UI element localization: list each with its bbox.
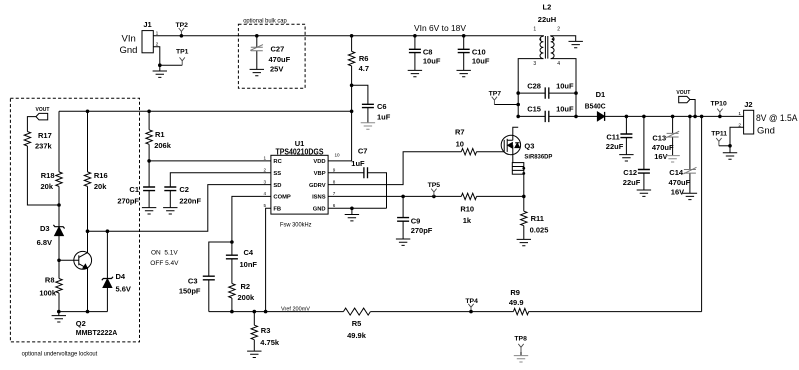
- capacitor C4: [226, 242, 258, 284]
- svg-text:49.9k: 49.9k: [347, 331, 367, 340]
- svg-text:Gnd: Gnd: [757, 125, 775, 136]
- svg-text:C10: C10: [472, 48, 486, 57]
- wire uvlo bottom: [57, 310, 107, 314]
- svg-text:16V: 16V: [654, 152, 667, 161]
- svg-text:VBP: VBP: [314, 171, 326, 177]
- svg-text:C1: C1: [129, 185, 139, 194]
- inductor L2: [533, 3, 560, 67]
- zener D4: [102, 229, 131, 311]
- svg-text:1uF: 1uF: [377, 112, 391, 121]
- svg-text:R17: R17: [38, 131, 52, 140]
- svg-text:1k: 1k: [463, 216, 472, 225]
- svg-text:C4: C4: [244, 248, 254, 257]
- label ON OFF thresholds: [150, 250, 179, 268]
- test point TP8: [514, 335, 527, 355]
- svg-text:C14: C14: [669, 168, 684, 177]
- node output feedback: [700, 115, 704, 119]
- ground (C2): [163, 208, 177, 214]
- svg-text:8: 8: [333, 179, 336, 184]
- svg-text:150pF: 150pF: [179, 287, 201, 296]
- svg-text:B540C: B540C: [585, 101, 606, 110]
- svg-text:1: 1: [263, 156, 266, 161]
- wire base: [59, 259, 79, 261]
- svg-text:C2: C2: [179, 185, 189, 194]
- ground (C12): [637, 190, 651, 196]
- svg-text:3: 3: [533, 61, 536, 67]
- wire GDRV pin8: [328, 152, 461, 185]
- svg-text:470uF: 470uF: [269, 55, 291, 64]
- svg-text:10: 10: [335, 153, 341, 158]
- capacitor C3 branch: [179, 242, 232, 312]
- wire SD pin3: [88, 185, 271, 232]
- svg-text:5.6V: 5.6V: [116, 284, 131, 293]
- ground (J2): [723, 153, 737, 159]
- resistor R10: [460, 193, 476, 225]
- resistor R2: [229, 282, 255, 313]
- ground (C11): [619, 155, 633, 161]
- wire J1 pin2 to ground: [153, 47, 182, 67]
- svg-text:ON 5.1V: ON 5.1V: [151, 250, 178, 257]
- svg-text:R7: R7: [455, 128, 465, 137]
- resistor R16: [84, 110, 107, 232]
- wire SS pin2 / capacitor C2: [164, 173, 271, 208]
- svg-text:49.9: 49.9: [509, 298, 524, 307]
- test point TP4: [465, 298, 478, 314]
- svg-text:VOUT: VOUT: [36, 107, 50, 113]
- ground (C8): [408, 70, 422, 76]
- ground (C13): [665, 156, 679, 162]
- svg-text:Gnd: Gnd: [120, 45, 138, 56]
- svg-text:3: 3: [263, 179, 266, 184]
- capacitor C15: [518, 104, 576, 122]
- svg-text:10uF: 10uF: [472, 57, 490, 66]
- ground (R3): [247, 351, 261, 357]
- svg-text:270pF: 270pF: [411, 226, 433, 235]
- svg-text:GDRV: GDRV: [309, 183, 326, 189]
- svg-text:20k: 20k: [40, 182, 53, 191]
- svg-text:VIn 6V to 18V: VIn 6V to 18V: [414, 24, 467, 33]
- capacitor C1: [117, 161, 155, 208]
- capacitor C7: [328, 146, 386, 208]
- svg-text:4: 4: [557, 61, 560, 67]
- optional undervoltage lockout box: [10, 98, 139, 357]
- svg-text:TP10: TP10: [711, 100, 727, 107]
- svg-text:TPS40210DGS: TPS40210DGS: [276, 148, 324, 157]
- ground (uvlo): [52, 312, 66, 322]
- svg-text:Q3: Q3: [524, 142, 534, 151]
- wire FB pin5: [264, 208, 271, 313]
- resistor R9: [509, 288, 529, 315]
- net tag VOUT (output): [676, 90, 696, 118]
- net tag VOUT (uvlo): [27, 107, 49, 132]
- svg-text:6.8V: 6.8V: [37, 238, 52, 247]
- svg-text:220nF: 220nF: [179, 196, 201, 205]
- svg-text:TP7: TP7: [489, 90, 502, 97]
- wire top rail Vin: [153, 35, 541, 37]
- svg-text:J2: J2: [744, 100, 752, 109]
- svg-text:22uF: 22uF: [623, 178, 641, 187]
- capacitor C14: [669, 115, 697, 197]
- svg-text:R6: R6: [359, 54, 369, 63]
- svg-text:R11: R11: [531, 214, 544, 223]
- svg-text:COMP: COMP: [273, 195, 291, 201]
- test point TP11: [711, 130, 730, 145]
- svg-text:C15: C15: [527, 104, 541, 113]
- svg-text:1: 1: [533, 26, 536, 32]
- svg-text:TP5: TP5: [428, 182, 441, 189]
- svg-text:2: 2: [263, 167, 266, 172]
- svg-text:10uF: 10uF: [556, 81, 574, 90]
- svg-text:2: 2: [557, 26, 560, 32]
- svg-text:2: 2: [738, 123, 741, 129]
- svg-text:237k: 237k: [35, 142, 53, 151]
- svg-text:C27: C27: [271, 45, 285, 54]
- svg-text:optional undervoltage lockout: optional undervoltage lockout: [22, 352, 98, 358]
- svg-text:9: 9: [333, 167, 336, 172]
- svg-text:22uF: 22uF: [606, 142, 624, 151]
- svg-text:VDD: VDD: [313, 159, 325, 165]
- ground (C27): [250, 69, 264, 75]
- ground (C6): [361, 123, 375, 129]
- svg-text:C13: C13: [652, 133, 666, 142]
- wire J2 pin2: [728, 127, 743, 152]
- wire GND pin6: [328, 207, 386, 211]
- resistor R7: [455, 128, 477, 155]
- ground (C10): [457, 70, 471, 76]
- svg-text:R3: R3: [261, 326, 271, 335]
- svg-text:Vref 200mV: Vref 200mV: [281, 306, 310, 312]
- wire L2 pin3 down: [516, 59, 543, 119]
- capacitor C28: [518, 81, 576, 98]
- svg-text:1: 1: [738, 111, 741, 117]
- capacitor C12: [623, 115, 650, 190]
- ground (C14): [683, 193, 697, 199]
- svg-text:TP1: TP1: [176, 48, 189, 55]
- svg-text:20k: 20k: [94, 182, 107, 191]
- svg-text:25V: 25V: [270, 65, 283, 74]
- ground (C9): [396, 239, 410, 245]
- capacitor C8: [409, 34, 441, 70]
- resistor R6: [328, 34, 369, 161]
- svg-text:7: 7: [333, 191, 336, 196]
- svg-text:C7: C7: [358, 146, 368, 155]
- svg-text:R9: R9: [510, 288, 520, 297]
- transistor Q2: [74, 229, 118, 336]
- capacitor C11: [606, 115, 633, 155]
- svg-text:C8: C8: [423, 48, 433, 57]
- resistor R5: [343, 308, 370, 340]
- test point TP10: [711, 100, 727, 118]
- svg-text:C9: C9: [411, 217, 421, 226]
- Q3 package: [512, 163, 525, 197]
- resistor R1: [146, 110, 172, 161]
- svg-text:TP11: TP11: [711, 130, 727, 137]
- transistor Q3: [501, 127, 553, 162]
- node COMP split: [230, 240, 234, 244]
- svg-text:6: 6: [333, 203, 336, 208]
- optional bulk cap box: [238, 18, 305, 88]
- svg-text:22uH: 22uH: [538, 15, 556, 24]
- svg-text:8V @ 1.5A: 8V @ 1.5A: [756, 113, 798, 124]
- wire L2 pin2 to ground: [551, 36, 576, 41]
- svg-text:470uF: 470uF: [652, 143, 674, 152]
- capacitor C6: [352, 85, 391, 122]
- ground (U1 GND): [345, 208, 359, 221]
- resistor R8: [39, 260, 62, 311]
- svg-text:10: 10: [456, 139, 464, 148]
- svg-text:100k: 100k: [39, 288, 57, 297]
- svg-text:206k: 206k: [154, 141, 172, 150]
- svg-text:0.025: 0.025: [530, 226, 549, 235]
- svg-text:C11: C11: [606, 132, 619, 141]
- svg-text:TP4: TP4: [465, 298, 478, 305]
- resistor R11: [521, 196, 549, 239]
- wire ISNS pin7: [328, 195, 525, 199]
- wire L2 pin4 down: [551, 59, 578, 119]
- test point TP5: [428, 182, 441, 197]
- svg-text:R8: R8: [45, 275, 55, 284]
- node rail end: [350, 110, 354, 114]
- capacitor C9: [397, 196, 433, 238]
- op-amp U1 TPS40210DGS: [263, 139, 340, 214]
- svg-text:C28: C28: [527, 81, 541, 90]
- test point TP7: [489, 90, 519, 104]
- svg-text:GND: GND: [313, 207, 326, 213]
- svg-text:470uF: 470uF: [669, 178, 691, 187]
- svg-text:1uF: 1uF: [351, 159, 365, 168]
- capacitor C27: [250, 34, 290, 74]
- svg-text:C6: C6: [377, 102, 387, 111]
- ground (R11): [517, 239, 531, 245]
- svg-text:4: 4: [263, 191, 266, 196]
- svg-text:R2: R2: [241, 282, 251, 291]
- svg-text:RC: RC: [273, 159, 282, 165]
- connector J1: [120, 20, 159, 56]
- svg-text:4.7: 4.7: [359, 64, 369, 73]
- wire output rail: [605, 115, 744, 117]
- svg-text:optional bulk cap: optional bulk cap: [243, 18, 287, 24]
- svg-text:SiR836DP: SiR836DP: [524, 154, 553, 161]
- svg-text:ISNS: ISNS: [312, 195, 326, 201]
- svg-text:R10: R10: [460, 204, 474, 213]
- svg-text:D4: D4: [116, 272, 126, 281]
- ground (TP8): [514, 356, 528, 362]
- svg-text:D3: D3: [40, 224, 50, 233]
- wire gate: [477, 151, 505, 153]
- resistor R3: [251, 310, 280, 351]
- ground (J1): [153, 65, 167, 77]
- node Q2 base: [57, 259, 61, 263]
- wire RC pin1: [147, 159, 271, 163]
- svg-text:16V: 16V: [671, 187, 684, 196]
- svg-text:200k: 200k: [238, 293, 256, 302]
- svg-text:Fsw 300kHz: Fsw 300kHz: [280, 222, 312, 229]
- capacitor C10: [458, 34, 490, 70]
- wire VDD rail y111: [59, 110, 352, 112]
- svg-text:TP8: TP8: [514, 335, 527, 342]
- svg-text:VOUT: VOUT: [676, 90, 690, 96]
- svg-text:FB: FB: [273, 207, 281, 213]
- wire COMP pin4: [232, 196, 271, 242]
- ground (C1): [142, 208, 156, 214]
- svg-text:R1: R1: [155, 130, 165, 139]
- ground (L2): [569, 41, 583, 47]
- svg-text:R16: R16: [94, 171, 108, 180]
- svg-text:D1: D1: [596, 90, 606, 99]
- svg-text:R18: R18: [41, 171, 55, 180]
- zener D3: [37, 224, 65, 260]
- svg-text:OFF 5.4V: OFF 5.4V: [150, 260, 179, 267]
- wire L2 pin1 stub: [541, 35, 543, 37]
- node VDD branch: [350, 84, 354, 88]
- svg-text:270pF: 270pF: [117, 196, 139, 205]
- svg-text:10uF: 10uF: [423, 57, 441, 66]
- svg-text:C12: C12: [623, 168, 637, 177]
- svg-text:4.75k: 4.75k: [260, 338, 280, 347]
- svg-text:VIn: VIn: [122, 34, 136, 45]
- svg-text:MMBT2222A: MMBT2222A: [76, 328, 118, 337]
- test point TP1: [176, 48, 189, 65]
- svg-text:TP2: TP2: [176, 22, 189, 29]
- test point TP2: [176, 22, 189, 37]
- svg-text:10nF: 10nF: [240, 260, 258, 269]
- svg-text:C3: C3: [188, 277, 198, 286]
- resistor R17: [24, 131, 59, 205]
- wire feedback vertical and bottom rail: [209, 116, 702, 311]
- svg-text:5: 5: [263, 203, 266, 208]
- svg-text:R5: R5: [352, 319, 362, 328]
- svg-text:SS: SS: [273, 171, 281, 177]
- capacitor C13: [652, 115, 679, 161]
- connector J2: [738, 100, 798, 136]
- svg-text:Q2: Q2: [76, 319, 86, 328]
- diode D1: [576, 90, 606, 121]
- svg-text:L2: L2: [543, 3, 552, 12]
- resistor R18: [40, 111, 62, 227]
- svg-text:10uF: 10uF: [556, 104, 574, 113]
- svg-text:SD: SD: [273, 183, 281, 189]
- svg-text:J1: J1: [143, 20, 151, 29]
